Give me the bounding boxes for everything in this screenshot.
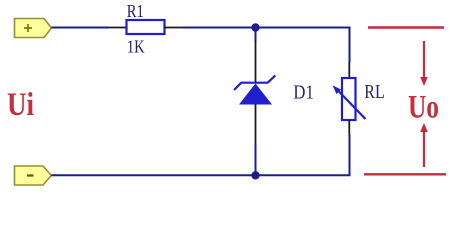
wire D1 stub bottom (255, 144, 257, 175)
pin R1.2 (164, 27, 184, 29)
resistor RL body (adjustable load) (333, 78, 366, 120)
red reference line bottom (Uo lower rail) (364, 173, 446, 175)
wire top-left (from + port to R1) (52, 27, 109, 29)
svg-text:D1: D1 (293, 82, 313, 103)
svg-text:1K: 1K (127, 36, 145, 56)
port - (input negative terminal) (15, 166, 52, 185)
wire RL stub bottom + bottom wire back to - port (51, 135, 349, 175)
wire top (R1 to top-right corner and down to RL) (183, 28, 350, 63)
pin D1 cathode (255, 40, 257, 83)
svg-text:Uo: Uo (408, 90, 439, 126)
port + (input positive terminal) (15, 19, 52, 38)
svg-text:R1: R1 (127, 1, 144, 21)
red arrow down (Uo polarity) (420, 41, 428, 86)
pin RL.1 (348, 62, 350, 79)
svg-text:Ui: Ui (7, 87, 34, 123)
junction top node (D1 branch tap) (251, 23, 259, 31)
junction bottom node (D1 branch tap) (251, 171, 259, 179)
pin R1.1 (107, 27, 127, 29)
red reference line top (Uo upper rail) (368, 26, 444, 28)
zener diode D1 symbol (234, 75, 275, 104)
wire D1 stub top (255, 28, 257, 42)
resistor R1 body (127, 20, 165, 34)
pin D1 anode (255, 104, 257, 145)
pin RL.2 (348, 120, 350, 136)
svg-text:RL: RL (364, 82, 384, 103)
red arrow up (Uo polarity) (420, 123, 428, 167)
